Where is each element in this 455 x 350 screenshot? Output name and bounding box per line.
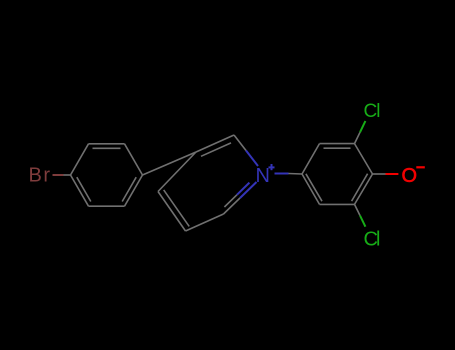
pyridinium N1 bonds (nitrogen halves) [240,151,258,199]
bond A4-A5 [125,175,143,206]
bond B6-Cl bottom (chlorine half) [360,216,365,227]
double bond inner line B6=B1 [352,174,368,201]
double bond inner line N1=C2 (carbon half) [224,195,237,207]
charge symbol + on N [269,166,275,168]
double bond inner line C5=C6 [201,143,231,156]
bond N1-B4 (nitrogen half) [275,173,289,175]
bond Br-C1 (carbon half) [64,174,71,176]
double bond inner line A2=A3 [93,147,121,149]
bond B6-Cl bottom (carbon half) [355,204,361,215]
bond A5-A6 [89,205,125,207]
benzene ring B (3,5-dichloro-4-olate-phenyl) [302,144,373,205]
bond B2-B1 [355,144,373,174]
bond A2-A3 [89,143,125,145]
bond N1=C2 main line (carbon half) [224,198,241,214]
svg-text:N: N [256,165,270,187]
double bond inner line B3=B2 [324,147,351,149]
bond B2-Cl top (carbon half) [355,132,361,143]
bond N1=C2 main line (nitrogen half) [240,182,257,198]
bond A4-C5 biaryl link [143,152,197,175]
bond N1-B4 (carbon half) [289,173,303,176]
bond C3=C4 main line [158,192,186,232]
bond C6-N1 (carbon half) [234,135,246,151]
double bond inner line A4=A5 [122,177,136,201]
double bond inner line B4=B5 [306,174,322,201]
bond C5=C6 main line [196,135,234,152]
bond C6-N1 (nitrogen half) [246,151,258,167]
benzene ring A (4-bromophenyl) [71,144,143,206]
bond C4-C5 [158,152,196,192]
bond C2-C3 [186,214,224,231]
bond B6-B5 [320,203,355,205]
double bond inner line A6=A1 [77,177,91,201]
bond B5-B4 [302,174,320,204]
pyridinium ring carbon bonds [158,135,246,231]
svg-text:O: O [402,165,418,187]
bond Br-C1 (Br-colored half) [53,174,64,176]
svg-text:Br: Br [29,165,51,187]
svg-text:Cl: Cl [364,101,381,122]
bond B1-B6 [355,174,373,204]
double bond inner line C3=C4 [164,190,190,227]
double bond inner line N1=C2 (nitrogen half) [237,183,250,195]
bond A3-A4 [125,144,143,175]
bond B2-Cl top (chlorine half) [360,121,365,132]
bond A6-A1 [71,175,89,206]
svg-text:Cl: Cl [364,229,381,251]
bond B1-O (carbon half) [373,173,386,175]
bond B1-O (oxygen half) [386,173,399,175]
bond B4-B3 [302,144,320,174]
bond B3-B2 [320,143,355,145]
bond A1-A2 [71,144,89,175]
charge symbol minus on O [416,166,425,168]
